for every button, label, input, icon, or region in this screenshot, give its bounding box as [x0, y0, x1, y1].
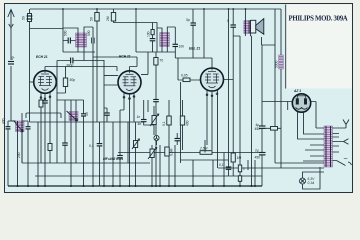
svg-text:50: 50	[85, 112, 89, 116]
svg-text:70: 70	[160, 59, 164, 63]
switch S1	[337, 161, 352, 166]
pin V1 a	[40, 97, 42, 99]
svg-text:MF=468 Kc/s: MF=468 Kc/s	[103, 157, 123, 161]
tube V1 internals	[38, 71, 52, 90]
svg-text:100: 100	[179, 45, 185, 49]
svg-text:1M: 1M	[237, 156, 242, 160]
resistor R3 50k (V1 osc grid)	[63, 67, 75, 94]
IF transformer T1 windings	[76, 33, 87, 47]
svg-text:450: 450	[255, 156, 261, 160]
wire: bottom area horizontals	[22, 153, 281, 177]
speaker SP1	[251, 19, 264, 35]
wire: R2 top x=113.5	[113, 9, 115, 12]
svg-text:ECH 21: ECH 21	[36, 55, 48, 59]
svg-text:2,5M: 2,5M	[199, 147, 208, 151]
svg-text:~: ~	[344, 156, 348, 163]
capacitor C6 50 (padder)	[81, 100, 89, 186]
svg-text:500: 500	[64, 30, 68, 36]
wire: V2 left leads	[104, 60, 119, 186]
wire: osc grid mesh	[57, 61, 84, 164]
resistor R16a	[238, 165, 245, 172]
wire: B+ staple around V4	[262, 102, 324, 129]
wire: left feed of C11	[177, 58, 179, 80]
wire: top HT bus y=9	[30, 8, 281, 10]
wire: V1 left leads	[30, 81, 34, 83]
capacitor C8 100 (T2 left)	[147, 30, 156, 53]
resistor R16b	[238, 176, 241, 182]
svg-text:50: 50	[90, 17, 94, 21]
potentiometer P1	[150, 106, 159, 133]
mains transformer T4 core	[324, 126, 333, 167]
tube V3 internals	[205, 69, 219, 88]
svg-text:0,1: 0,1	[219, 163, 224, 167]
capacitor C7 (V1 cathode bypass)	[42, 101, 48, 103]
svg-text:1: 1	[243, 167, 245, 171]
junction dots on top bus	[62, 8, 246, 10]
wire: T3 primary leads	[245, 9, 251, 186]
svg-text:0,1: 0,1	[89, 144, 94, 148]
wire: speaker line x228.5	[228, 9, 230, 168]
svg-text:2μ: 2μ	[255, 149, 259, 153]
pin V3 a	[206, 94, 208, 96]
capacitor C24	[117, 156, 123, 158]
wire: L1 bottoms to ground	[18, 132, 23, 187]
svg-text:0,05: 0,05	[181, 74, 188, 78]
component C11 0,05	[178, 74, 201, 82]
resistor R4 (V1 cathode)	[39, 100, 43, 107]
capacitor C4 300p	[57, 58, 104, 68]
wire: left vertical T1 feed x=63	[62, 9, 64, 52]
svg-text:EBL 21: EBL 21	[189, 47, 200, 51]
capacitor C22 (x133)	[132, 122, 140, 186]
svg-text:300p: 300p	[66, 63, 74, 67]
pin V3 b	[211, 95, 213, 97]
tube V4 AZ1 envelope	[292, 94, 310, 112]
pickup jack J1	[154, 135, 159, 145]
svg-text:0,1: 0,1	[162, 121, 166, 126]
schematic sheet	[5, 4, 353, 193]
wire: mid horizontal y=122	[30, 121, 144, 123]
svg-text:1n: 1n	[137, 115, 141, 119]
svg-text:5p: 5p	[186, 18, 190, 22]
wire: V1 top lead	[44, 67, 46, 71]
wire: AVC line y=22 from R2 to T2	[114, 22, 158, 53]
wire: L2 leads	[71, 100, 76, 186]
capacitor C9 100 (T2 right)	[173, 27, 185, 58]
svg-text:AZ 1: AZ 1	[293, 89, 301, 93]
tube V4 internals	[296, 96, 308, 109]
wire: verticals mid field	[38, 61, 120, 187]
pin V1 c	[49, 96, 51, 98]
svg-text:PHILIPS MOD. 309A: PHILIPS MOD. 309A	[289, 16, 348, 23]
tube V2 internals	[123, 71, 137, 90]
capacitor C14 2u450 (filter)	[255, 149, 266, 160]
capacitor C3 500p (T1 right)	[87, 27, 94, 52]
resistor R9 0,1	[162, 100, 171, 186]
svg-text:4n: 4n	[138, 122, 142, 126]
tube V2 ECH21 envelope	[118, 71, 141, 94]
svg-text:100: 100	[147, 31, 151, 37]
svg-text:0,5M: 0,5M	[170, 148, 174, 156]
wire: T4 left taps	[275, 145, 324, 168]
wire: T2 sec to V3 grid	[175, 9, 212, 68]
svg-text:450: 450	[255, 127, 261, 131]
wire: antenna down-lead x=11	[11, 27, 16, 121]
wire: filter chain x=262	[261, 102, 263, 187]
svg-text:2M: 2M	[106, 16, 110, 21]
resistor R6 50 (field)	[262, 127, 281, 131]
svg-text:400: 400	[2, 118, 6, 124]
pin V2 b	[129, 98, 131, 100]
title box white zone	[286, 5, 352, 89]
wire: x180.5 drop	[180, 82, 182, 163]
oscillator coil L2	[67, 111, 79, 121]
pin V1 b	[44, 98, 46, 100]
tube V1 ECH21 envelope	[34, 71, 57, 94]
pin V2 a	[123, 96, 125, 98]
wire: R1 drop x=97 to step	[93, 9, 137, 122]
wire: V1 bottom leads	[41, 92, 50, 186]
wire: antenna cap branch x=29	[30, 9, 64, 122]
capacitor C23 (screen bypass)	[153, 100, 159, 187]
capacitor C10 5p	[186, 9, 196, 58]
trimmer capacitor CT1	[6, 121, 16, 186]
resistor R12 0,5M	[165, 147, 174, 156]
ground bus	[8, 185, 262, 187]
resistor R10 2,5M	[199, 147, 212, 155]
resistor R1 50k	[90, 13, 100, 22]
trimmer capacitor CT2	[22, 121, 31, 186]
resistor R14	[48, 140, 52, 163]
capacitor C18 (x177)	[175, 133, 181, 145]
capacitor C13 4u450 (filter)	[255, 123, 266, 131]
capacitor C17 1n	[137, 100, 155, 126]
svg-text:4μ: 4μ	[11, 56, 15, 60]
capacitor C1 50 (antenna series)	[22, 14, 33, 22]
resistor R11 1M	[231, 153, 241, 176]
capacitor C21 0,1 (x120)	[89, 122, 102, 186]
capacitor C5 4u (left)	[8, 56, 15, 64]
svg-text:400: 400	[186, 120, 190, 126]
junction dots on bus	[17, 185, 257, 187]
svg-text:50: 50	[22, 16, 26, 20]
resistor R13 70 (screen)	[154, 52, 164, 100]
resistor R5 5000 (HT dropper right)	[275, 9, 284, 168]
output transformer T3	[244, 21, 252, 34]
capacitor C2 500p (T1 left)	[63, 30, 76, 43]
svg-text:ECH 21: ECH 21	[119, 55, 131, 59]
capacitor C20 0,1	[219, 163, 231, 176]
wire: T2 connections	[136, 9, 175, 52]
tube V3 EBL21 envelope	[201, 68, 224, 91]
wire: V2 bottom leads	[120, 93, 134, 186]
wire: bottom verticals	[22, 100, 255, 186]
resistor R10b 400	[180, 100, 189, 150]
lamp LA1	[300, 177, 316, 185]
wire: V4 anode leads	[298, 112, 325, 139]
wire: V1 grid/plate top line y=65.5	[45, 67, 137, 72]
wire: x275 vertical	[262, 9, 276, 163]
wire: tuning link y=113	[26, 113, 61, 118]
pin V3 c	[216, 93, 218, 95]
IF transformer T2 windings	[160, 33, 170, 47]
wire: T4 right taps	[333, 125, 347, 161]
antenna coil L1	[14, 121, 25, 133]
svg-text:500: 500	[87, 30, 91, 36]
potentiometer P2 volume	[148, 145, 157, 186]
title box left border	[285, 5, 287, 89]
svg-text:200: 200	[17, 152, 21, 158]
fork terminal mid	[344, 139, 349, 145]
svg-text:0,1A: 0,1A	[308, 181, 316, 185]
wire: lamp loop	[303, 167, 325, 189]
wire: V2 plate to T2	[141, 52, 148, 74]
wire: T1 top and bottom connections	[63, 27, 95, 61]
capacitor C12 (tone on V3 plate)	[227, 9, 240, 186]
wire: V3 leads	[207, 80, 233, 169]
capacitor C16 (x107)	[104, 108, 110, 122]
pin V2 c	[133, 96, 135, 98]
svg-text:50p: 50p	[70, 78, 76, 82]
resistor R2 2M	[106, 13, 116, 22]
aerial symbol on T4 top	[343, 120, 349, 125]
capacitor C15 (x65 bottom)	[62, 137, 68, 163]
antenna A1	[8, 10, 14, 28]
